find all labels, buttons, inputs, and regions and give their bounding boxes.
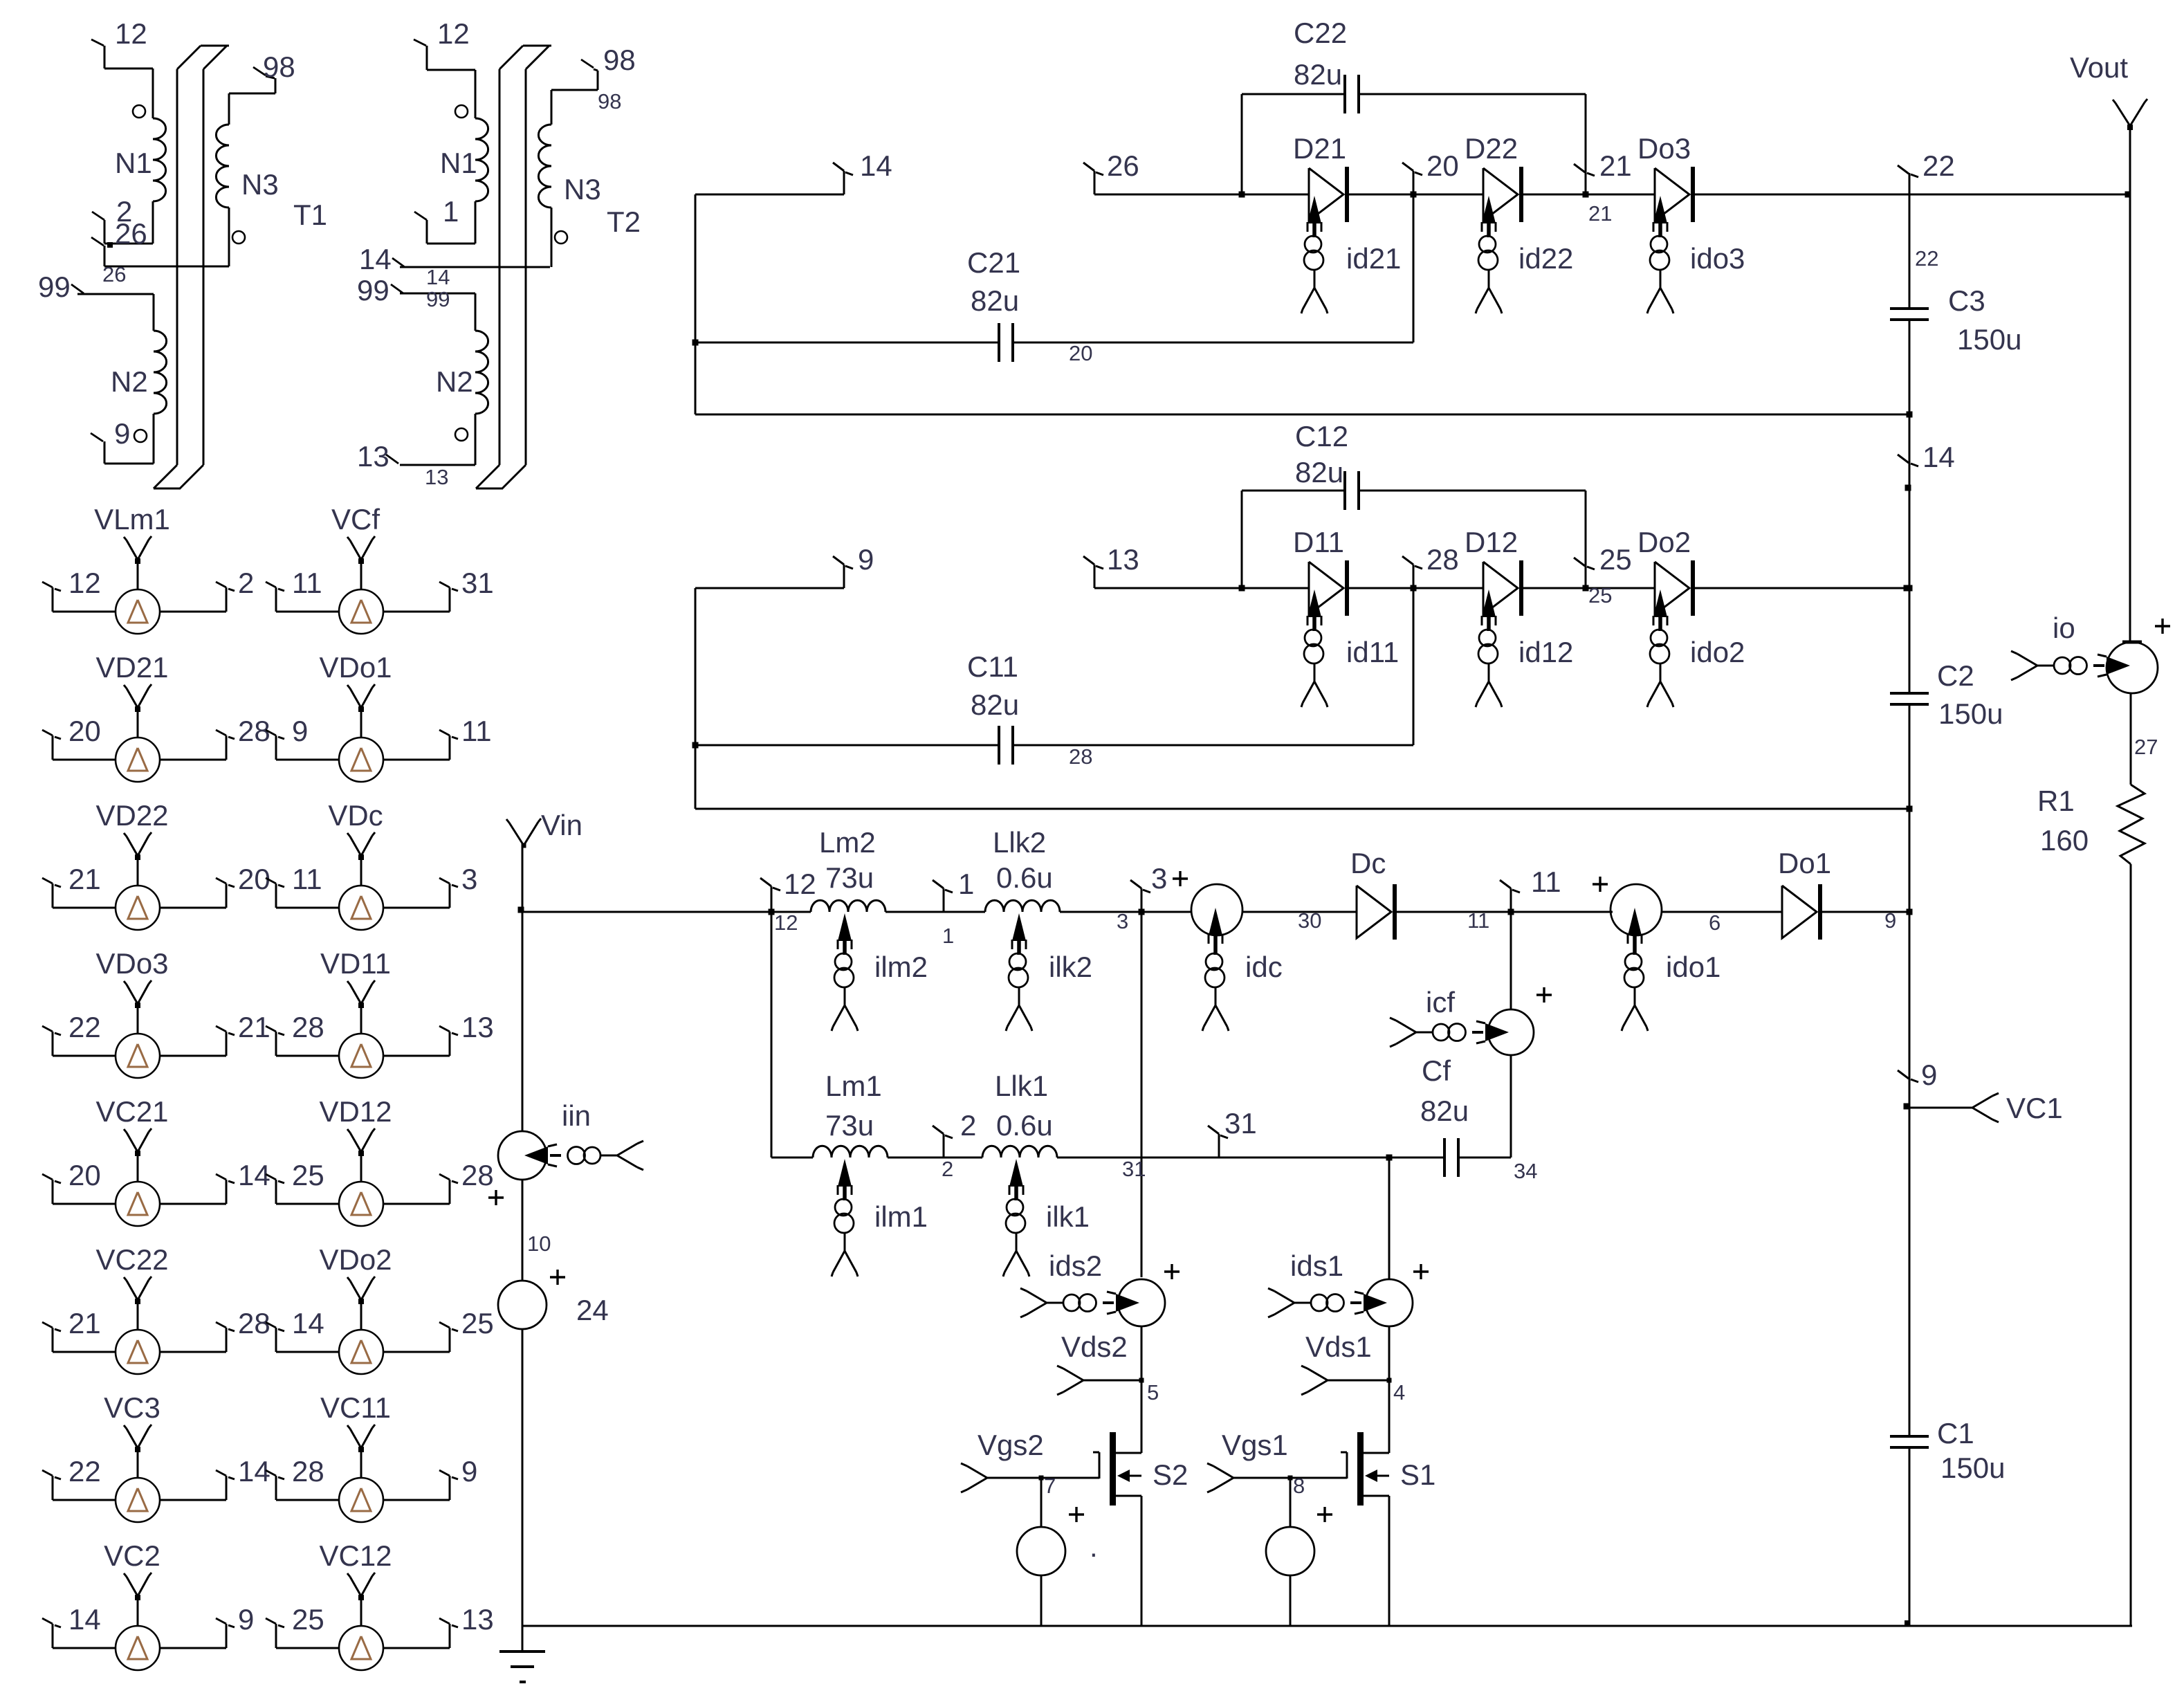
node 28 tick: [1402, 556, 1422, 588]
svg-text:6: 6: [1709, 911, 1720, 935]
inductor Llk1: [982, 1146, 1057, 1157]
svg-text:73u: 73u: [825, 861, 874, 894]
label Vgs2: [978, 1429, 1044, 1461]
VD12 left node 25: [292, 1159, 324, 1191]
current probe ilm2: [832, 913, 858, 1031]
node 3 tick: [1130, 880, 1150, 912]
svg-text:ilk1: ilk1: [1046, 1200, 1090, 1233]
capacitor C1: [1890, 1436, 1929, 1447]
svg-text:27: 27: [2134, 735, 2158, 759]
Vin probe antenna: [506, 818, 541, 913]
wire rail2 left stub: [695, 587, 844, 589]
node 22 tick: [1898, 165, 1918, 194]
wire source 24 to bottom rail: [522, 1329, 524, 1626]
wire C21 left: [692, 340, 999, 346]
small pin 11: [1467, 908, 1489, 933]
voltmeter VC2: [42, 1573, 235, 1670]
svg-text:1: 1: [958, 868, 974, 900]
wire idc to Dc: [1242, 911, 1357, 913]
label D12: [1465, 526, 1518, 558]
node label 11: [1531, 866, 1561, 898]
wire C21 right to node 20: [1013, 342, 1413, 344]
wire gate to Vgs1 source: [1290, 1478, 1292, 1527]
svg-text:14: 14: [426, 265, 450, 289]
value Llk1 0.6u: [996, 1109, 1053, 1142]
label VD22: [95, 799, 168, 832]
T2 small pin 13: [425, 465, 448, 489]
svg-text:82u: 82u: [1420, 1095, 1469, 1127]
T1 small pin 26: [102, 262, 126, 286]
svg-text:82u: 82u: [971, 284, 1019, 317]
svg-text:D11: D11: [1293, 526, 1344, 558]
small pin 12: [774, 911, 798, 935]
svg-text:.: .: [1090, 1530, 1098, 1563]
label Vds1: [1305, 1330, 1372, 1363]
svg-text:D21: D21: [1293, 132, 1346, 165]
current probe id21: [1301, 196, 1328, 313]
svg-text:VDo3: VDo3: [95, 947, 168, 980]
iin plus sign: [488, 1190, 504, 1205]
label S2: [1153, 1458, 1188, 1491]
label iin: [562, 1099, 591, 1132]
svg-text:28: 28: [1426, 543, 1459, 576]
svg-text:9: 9: [858, 543, 874, 576]
svg-text:20: 20: [1426, 149, 1459, 182]
label VD21: [95, 651, 168, 684]
value C12 82u: [1295, 456, 1343, 488]
wire column C1 to bottom rail: [1909, 1447, 1911, 1626]
wire S2 source to bottom rail: [1141, 1496, 1143, 1626]
wire rail4 to ids1: [1386, 1155, 1393, 1280]
icf plus sign: [1536, 987, 1552, 1003]
svg-text:2: 2: [942, 1157, 953, 1181]
value C2 150u: [1938, 697, 2003, 730]
diode Do3: [1655, 167, 1693, 222]
svg-text:Cf: Cf: [1422, 1054, 1451, 1087]
svg-text:25: 25: [1588, 583, 1612, 607]
label D21: [1293, 132, 1346, 165]
inductor Lm2: [811, 900, 885, 912]
T2 pin label 98: [603, 44, 636, 76]
voltmeter VC3: [42, 1425, 235, 1522]
label Dc: [1350, 847, 1386, 879]
current probe ilk1: [1003, 1159, 1029, 1276]
capacitor C12 wire: [1242, 471, 1586, 510]
svg-text:io: io: [2053, 612, 2075, 644]
svg-text:28: 28: [1069, 744, 1092, 769]
T1 pin label 98: [263, 51, 295, 83]
VC22 left node 21: [68, 1307, 101, 1339]
label ido1: [1666, 951, 1720, 983]
wire io to R1: [2130, 693, 2132, 785]
wire Vgs1 source to bottom rail: [1290, 1575, 1292, 1626]
label C2: [1937, 659, 1974, 692]
label Vin: [541, 809, 582, 841]
probe Vds1 wire: [1301, 1366, 1392, 1395]
small pin 3: [1117, 909, 1128, 933]
svg-text:D12: D12: [1465, 526, 1518, 558]
svg-text:2: 2: [960, 1109, 976, 1142]
label C12: [1295, 420, 1348, 452]
VC3 left node 22: [68, 1455, 101, 1488]
voltmeter VD21: [42, 684, 235, 782]
label ilm2: [874, 951, 928, 983]
svg-text:id21: id21: [1346, 242, 1401, 275]
node label 14 column: [1923, 441, 1955, 473]
node 25 tick: [1574, 558, 1595, 569]
VC12 left node 25: [292, 1603, 324, 1636]
svg-text:28: 28: [292, 1455, 324, 1488]
ids1 plus sign: [1413, 1264, 1429, 1279]
wire D12 to Do2: [1521, 587, 1655, 589]
svg-text:14: 14: [238, 1455, 270, 1488]
T1 node 99 tick and wire: [71, 284, 154, 331]
value Llk2 0.6u: [996, 861, 1053, 894]
small pin 4: [1393, 1380, 1405, 1404]
svg-text:12: 12: [784, 868, 816, 900]
svg-text:T2: T2: [607, 205, 641, 238]
node 9 tick on column: [1898, 1070, 1918, 1082]
svg-text:id22: id22: [1518, 242, 1573, 275]
T2 winding N2 (pins 99-13): [386, 331, 488, 465]
node 12 vertical: [769, 886, 775, 1157]
svg-text:10: 10: [527, 1232, 551, 1256]
node 12 tick: [760, 878, 780, 912]
svg-text:20: 20: [68, 715, 101, 747]
Vout probe antenna and column: [2113, 99, 2147, 642]
voltmeter VD11: [266, 980, 458, 1078]
label icf: [1426, 986, 1455, 1018]
node 25 vertical: [1583, 491, 1589, 592]
VD21 right node 28: [238, 715, 270, 747]
svg-text:Vds1: Vds1: [1305, 1330, 1372, 1363]
label VC11: [320, 1391, 391, 1424]
label Cf: [1422, 1054, 1451, 1087]
VC12 right node 13: [461, 1603, 494, 1636]
svg-text:S1: S1: [1400, 1458, 1435, 1491]
label VC12: [319, 1539, 392, 1572]
wire Lm2 to Llk2: [885, 911, 985, 913]
svg-text:12: 12: [774, 911, 798, 935]
wire C11 right to node 28: [1013, 744, 1413, 747]
label Llk2: [993, 826, 1046, 859]
Vgs2 plus sign: [1069, 1507, 1084, 1522]
svg-text:VC1: VC1: [2006, 1092, 2063, 1124]
VLm1 right node 2: [238, 567, 254, 599]
current source io circle: [2107, 642, 2158, 693]
wire Cf to icf corner: [1458, 1055, 1511, 1157]
voltage source Vgs1 circle: [1266, 1527, 1314, 1575]
wire R1 to bottom rail: [2130, 864, 2132, 1626]
node label 22: [1923, 149, 1955, 182]
node label 28: [1426, 543, 1459, 576]
svg-text:N1: N1: [115, 147, 152, 179]
wire ids2 to S2 drain: [1141, 1326, 1143, 1453]
label VDc: [328, 799, 383, 832]
label Lm2: [819, 826, 876, 859]
wire Do2 to capacitor column: [1693, 585, 1910, 592]
current source ido1 circle: [1611, 884, 1662, 935]
T2 pin label 14: [359, 243, 392, 275]
node 20 tick: [1402, 163, 1422, 194]
small pin 1: [942, 924, 954, 948]
node 11 vertical to icf: [1508, 888, 1514, 1009]
svg-text:28: 28: [238, 1307, 270, 1339]
node 11 tick: [1500, 880, 1520, 912]
svg-text:12: 12: [115, 17, 147, 50]
svg-text:9: 9: [292, 715, 308, 747]
voltmeter VCf: [266, 536, 458, 634]
current source idc circle: [1191, 884, 1242, 935]
voltmeter VC21: [42, 1128, 235, 1226]
small pin 9 rail3: [1884, 908, 1896, 933]
svg-text:9: 9: [114, 417, 130, 450]
svg-text:Llk2: Llk2: [993, 826, 1046, 859]
wire Llk2 to idc: [1060, 911, 1191, 913]
ido1 plus sign: [1593, 877, 1608, 892]
svg-text:99: 99: [38, 271, 71, 303]
label C21: [967, 246, 1020, 279]
svg-text:VDc: VDc: [328, 799, 383, 832]
VC3 right node 14: [238, 1455, 270, 1488]
wire column C3 to C2: [1905, 320, 1913, 693]
VDc right node 3: [461, 863, 477, 895]
wire S1 source to bottom rail: [1388, 1496, 1391, 1626]
label Vout: [2070, 51, 2128, 84]
svg-text:C2: C2: [1937, 659, 1974, 692]
svg-text:14: 14: [68, 1603, 101, 1636]
transformer T2 core: [476, 46, 551, 488]
node 14 tick on column: [1898, 455, 1918, 466]
small pin 6: [1709, 911, 1720, 935]
svg-text:Vout: Vout: [2070, 51, 2128, 84]
node 2 tick rail4: [933, 1126, 953, 1157]
voltmeter VD22: [42, 832, 235, 930]
T2 label N1: [440, 147, 477, 179]
value C21 82u: [971, 284, 1019, 317]
svg-text:VD21: VD21: [95, 651, 168, 684]
voltmeter VDc: [266, 832, 458, 930]
svg-text:icf: icf: [1426, 986, 1455, 1018]
wire block B left vertical: [695, 588, 697, 809]
wire D21 to D22: [1347, 194, 1483, 196]
T2 pin label 99: [357, 274, 389, 306]
label Vgs1: [1222, 1429, 1288, 1461]
label Do3: [1637, 132, 1691, 165]
small pin 34: [1514, 1159, 1537, 1183]
svg-text:31: 31: [1122, 1157, 1146, 1181]
svg-text:73u: 73u: [825, 1109, 874, 1142]
svg-text:VC22: VC22: [95, 1243, 168, 1276]
node 13 tick (rail2): [1083, 556, 1103, 588]
node 21 tick: [1574, 164, 1595, 176]
svg-text:28: 28: [461, 1159, 494, 1191]
svg-text:150u: 150u: [1940, 1452, 2005, 1484]
label VDo3: [95, 947, 168, 980]
VC21 right node 14: [238, 1159, 270, 1191]
VC2 right node 9: [238, 1603, 254, 1636]
VDo1 right node 11: [461, 715, 492, 747]
label idc: [1245, 951, 1283, 983]
svg-text:9: 9: [1884, 908, 1896, 933]
wire column above C3: [1909, 194, 1911, 309]
svg-text:11: 11: [292, 567, 322, 599]
VDc left node 11: [292, 863, 322, 895]
probe Vgs2 wire: [961, 1463, 1041, 1492]
node 20 vertical: [1411, 171, 1417, 342]
VDo3 left node 22: [68, 1011, 101, 1043]
current source iin circle: [498, 1131, 547, 1180]
svg-text:0.6u: 0.6u: [996, 861, 1053, 894]
voltmeter VC22: [42, 1276, 235, 1374]
small pin 28: [1069, 744, 1092, 769]
label id22: [1518, 242, 1573, 275]
svg-text:Do3: Do3: [1637, 132, 1691, 165]
voltmeter VLm1: [42, 536, 235, 634]
label VD12: [319, 1095, 392, 1128]
svg-text:21: 21: [68, 1307, 101, 1339]
svg-text:99: 99: [357, 274, 389, 306]
T1 label N3: [241, 168, 279, 201]
wire ids1 to S1 drain: [1388, 1326, 1391, 1453]
io plus sign: [2155, 619, 2170, 634]
svg-text:25: 25: [292, 1159, 324, 1191]
svg-text:9: 9: [461, 1455, 477, 1488]
voltmeter VDo3: [42, 980, 235, 1078]
value C3 150u: [1957, 323, 2021, 356]
label D11: [1293, 526, 1344, 558]
label ilk2: [1049, 951, 1092, 983]
svg-text:ido2: ido2: [1690, 636, 1745, 668]
capacitor C2: [1890, 693, 1929, 704]
svg-text:C3: C3: [1948, 284, 1985, 317]
svg-text:22: 22: [68, 1011, 101, 1043]
T2 node 99 tick and wire: [391, 284, 475, 331]
VC2 left node 14: [68, 1603, 101, 1636]
svg-text:D22: D22: [1465, 132, 1518, 165]
svg-text:14: 14: [860, 149, 892, 182]
T2 pin label 1: [443, 195, 459, 228]
svg-text:id12: id12: [1518, 636, 1573, 668]
svg-text:20: 20: [68, 1159, 101, 1191]
small pin 22: [1915, 246, 1938, 271]
small pin 5: [1147, 1380, 1159, 1404]
node 9 tick (rail2): [833, 556, 853, 588]
T2 node 1 tick: [414, 212, 427, 244]
svg-text:24: 24: [576, 1294, 609, 1326]
svg-text:11: 11: [461, 715, 492, 747]
small pin 20: [1069, 341, 1092, 365]
voltmeter VC12: [266, 1573, 458, 1670]
value Cf 82u: [1420, 1095, 1469, 1127]
svg-text:13: 13: [461, 1011, 494, 1043]
node 3 plus sign: [1173, 871, 1188, 886]
svg-text:20: 20: [238, 863, 270, 895]
svg-text:ido1: ido1: [1666, 951, 1720, 983]
svg-text:ids1: ids1: [1290, 1250, 1343, 1282]
label VC1: [2006, 1092, 2063, 1124]
current probe id11: [1301, 589, 1328, 707]
current probe ido3: [1647, 196, 1673, 313]
wire node13 to D11: [1094, 587, 1309, 589]
svg-text:id11: id11: [1346, 636, 1399, 668]
wire Vin column to iin: [522, 912, 524, 1131]
svg-text:82u: 82u: [1295, 456, 1343, 488]
label D22: [1465, 132, 1518, 165]
T1 label N2: [111, 365, 148, 398]
diode Do2: [1655, 560, 1693, 616]
svg-text:VDo2: VDo2: [319, 1243, 392, 1276]
label C3: [1948, 284, 1985, 317]
capacitor C11: [999, 726, 1013, 765]
VC11 left node 28: [292, 1455, 324, 1488]
small pin 30: [1298, 908, 1321, 933]
svg-text:21: 21: [1599, 149, 1632, 182]
svg-text:N3: N3: [241, 168, 279, 201]
svg-text:14: 14: [1923, 441, 1955, 473]
label Llk1: [995, 1070, 1048, 1102]
svg-text:N1: N1: [440, 147, 477, 179]
svg-text:VC12: VC12: [319, 1539, 392, 1572]
diode D21: [1309, 167, 1347, 222]
label C22: [1294, 17, 1347, 49]
svg-text:VLm1: VLm1: [94, 503, 170, 536]
T1 pin label 2: [116, 195, 132, 228]
svg-text:Vds2: Vds2: [1061, 1330, 1128, 1363]
svg-text:82u: 82u: [1294, 58, 1342, 91]
diode D22: [1483, 167, 1521, 222]
T2 reference label: [607, 205, 641, 238]
label 24: [576, 1294, 609, 1326]
svg-text:82u: 82u: [971, 688, 1019, 721]
node 3 vertical to S2: [1139, 888, 1145, 1277]
probe Vds2 wire: [1057, 1366, 1144, 1395]
wire Do1 to capacitor column: [1821, 911, 1909, 913]
wire block B bottom rail: [695, 808, 1909, 810]
label ids1: [1290, 1250, 1343, 1282]
wire Llk1 to Cf: [1057, 1157, 1444, 1159]
value C11 82u: [971, 688, 1019, 721]
label ids2: [1049, 1250, 1102, 1282]
node label 9 column: [1921, 1059, 1937, 1091]
svg-text:3: 3: [1151, 862, 1167, 895]
value C22 82u: [1294, 58, 1342, 91]
Vgs1 plus sign: [1317, 1507, 1332, 1522]
svg-text:1: 1: [443, 195, 459, 228]
wire node26 to D21: [1094, 194, 1309, 196]
VD22 left node 21: [68, 863, 101, 895]
T1 winding N1 (pins 12-2): [91, 39, 166, 244]
current source icf circle: [1488, 1009, 1534, 1055]
svg-text:11: 11: [292, 863, 322, 895]
node label 13: [1107, 543, 1139, 576]
svg-text:idc: idc: [1245, 951, 1283, 983]
node 31 tick: [1208, 1126, 1228, 1157]
svg-text:98: 98: [263, 51, 295, 83]
label C1: [1937, 1417, 1974, 1449]
small pin 31: [1122, 1157, 1146, 1181]
wire gate to Vgs2 source: [1040, 1478, 1043, 1527]
T1 node 2 tick: [92, 212, 104, 244]
svg-text:5: 5: [1147, 1380, 1159, 1404]
resistor R1 zigzag: [2118, 785, 2145, 864]
ground symbol: [499, 1626, 545, 1682]
node label 9 rail2: [858, 543, 874, 576]
small pin 7: [1044, 1474, 1056, 1498]
node label 31: [1224, 1107, 1257, 1140]
svg-text:26: 26: [102, 262, 126, 286]
svg-text:12: 12: [437, 17, 470, 50]
